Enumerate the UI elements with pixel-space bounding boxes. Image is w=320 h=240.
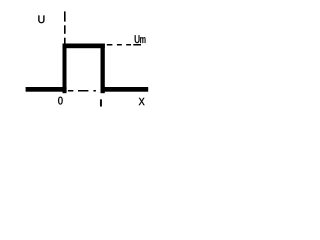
pulse top bar [63, 44, 105, 49]
x-axis left segment [26, 87, 67, 92]
dashed baseline under pulse [68, 90, 96, 92]
pulse width label l [100, 100, 102, 107]
label Um - letter m [140, 37, 145, 43]
x-axis right segment [101, 87, 149, 92]
label Um - letter U [135, 35, 140, 43]
pulse right vertical edge [101, 44, 105, 94]
dashed vertical line above pulse left edge [64, 11, 66, 43]
pulse left vertical edge [63, 44, 67, 94]
origin label 0 [58, 97, 62, 105]
dashed line at Um level [107, 44, 141, 46]
axis label X [139, 98, 145, 105]
axis label U [38, 16, 44, 24]
